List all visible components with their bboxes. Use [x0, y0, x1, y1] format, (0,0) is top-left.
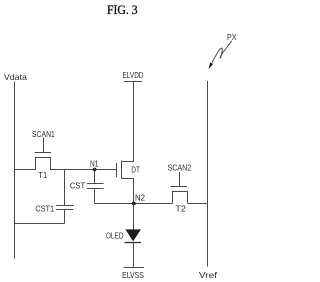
transistor T2 — [171, 187, 188, 204]
svg-text:FIG. 3: FIG. 3 — [107, 2, 138, 17]
wire SCAN2 gate lead — [179, 172, 181, 187]
svg-text:CST1: CST1 — [35, 203, 54, 213]
svg-text:CST: CST — [70, 181, 85, 191]
wire T2 to Vref rail — [188, 203, 208, 205]
svg-text:DT: DT — [131, 165, 140, 175]
wire CST to N2 node (net N2 left) — [95, 203, 173, 205]
svg-text:N1: N1 — [90, 158, 99, 168]
diode OLED — [125, 229, 142, 242]
wire DT source to N2 — [133, 179, 135, 204]
wire T1 drain to DT gate (net N1) — [51, 169, 118, 171]
wire CST1 bottom plate down — [64, 210, 66, 224]
wire N1 branch to CST1 — [64, 170, 66, 206]
wire OLED cathode to ELVSS — [133, 243, 135, 268]
wire SCAN1 gate lead — [43, 138, 45, 153]
svg-text:N2: N2 — [135, 193, 145, 203]
svg-text:T2: T2 — [175, 203, 186, 213]
wire CST bottom plate to N2 — [94, 189, 96, 204]
wire Vdata vertical rail — [14, 82, 16, 259]
lead-line arrow PX — [208, 41, 231, 69]
power rail ELVDD — [124, 81, 142, 83]
svg-text:ELVDD: ELVDD — [123, 70, 144, 80]
svg-text:SCAN2: SCAN2 — [168, 163, 192, 173]
capacitor CST1 — [56, 206, 74, 210]
svg-text:Vdata: Vdata — [4, 72, 27, 82]
transistor DT — [117, 161, 134, 180]
wire N2 to OLED anode — [133, 204, 135, 230]
node N2 — [132, 202, 136, 206]
svg-text:T1: T1 — [38, 170, 47, 180]
wire Vdata to T1 source — [15, 169, 36, 171]
power rail ELVSS — [124, 267, 145, 269]
node N1 — [93, 168, 97, 172]
wire ELVDD to DT drain — [133, 82, 135, 163]
svg-text:PX: PX — [227, 32, 237, 42]
transistor T1 — [35, 153, 52, 171]
wire N1 to CST top plate — [94, 170, 96, 184]
capacitor CST — [87, 184, 104, 189]
svg-text:SCAN1: SCAN1 — [32, 129, 55, 139]
svg-text:OLED: OLED — [106, 231, 124, 241]
svg-text:Vref: Vref — [199, 270, 218, 280]
wire CST1 bottom to Vdata rail — [15, 223, 65, 225]
svg-text:ELVSS: ELVSS — [122, 270, 144, 280]
wire Vref vertical rail — [207, 81, 209, 267]
